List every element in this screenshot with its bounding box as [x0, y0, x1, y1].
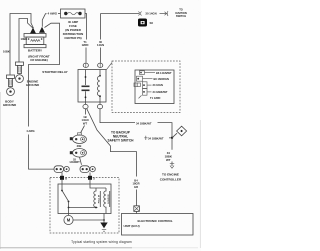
inline connector C2	[70, 133, 87, 144]
wire battery positive cable to starter	[29, 23, 60, 126]
starter relay K1	[78, 70, 106, 103]
wire motor to ground	[73, 219, 104, 221]
connector detail inner box	[135, 70, 174, 104]
wire ring to terminal B	[61, 172, 63, 176]
switch blade	[61, 180, 63, 191]
wire ring to terminal S	[89, 173, 91, 177]
wire switch node to motor	[68, 208, 70, 216]
terminal S	[88, 176, 92, 180]
terminal B	[60, 176, 64, 180]
page edge shading	[0, 92, 2, 249]
terminal relay pin 3	[85, 102, 87, 105]
wire 30 14GN to relay coil	[100, 14, 102, 40]
terminal relay pin 4	[99, 102, 101, 105]
wire terminal S to coils	[90, 180, 106, 188]
wire 34 18BK/WT to safety switch	[147, 137, 171, 139]
connector half C4	[144, 136, 147, 140]
wire T1 12RD fuse to relay	[85, 14, 87, 40]
hold-in coil	[104, 188, 110, 214]
battery positive clamp	[39, 27, 45, 33]
connector detail dashed box	[112, 61, 180, 113]
leader line	[106, 63, 112, 70]
ground starter	[103, 214, 105, 223]
pin row B6 16OR/GN	[137, 76, 143, 81]
ring terminal pair battery cable	[54, 166, 69, 173]
scan noise overlay	[0, 0, 1, 1]
connector half C1	[139, 11, 142, 15]
splice S134 diamond	[172, 133, 177, 138]
starter solenoid box	[58, 184, 111, 214]
wire battery negative to body ground	[10, 14, 34, 75]
pull-in coil	[94, 188, 101, 208]
pin row 34 18BK/WT	[143, 89, 148, 96]
fuse F1 40 AMP	[61, 9, 86, 40]
inline connector C3	[70, 149, 87, 158]
body ground terminal	[3, 75, 17, 107]
arrow to ignition switch	[160, 12, 167, 15]
ring terminal pair solenoid feed	[80, 166, 95, 173]
pin row 33 16GN	[134, 83, 137, 87]
wire connector to starter S ring	[80, 157, 82, 165]
terminal ECU pin	[134, 206, 140, 212]
wire 30 14GN ignition switch feed	[101, 13, 140, 15]
wire battery negative to engine ground	[19, 19, 33, 63]
motor M	[64, 215, 73, 224]
ECU box	[122, 214, 194, 236]
wire B4 18GR relay to ECU	[87, 109, 137, 177]
engine ground terminal	[16, 62, 40, 87]
wire battery positive to fuse, 4 AWG	[42, 14, 46, 27]
battery negative clamp	[30, 28, 36, 34]
wire 1B 14GN/WT relay to connector	[85, 109, 87, 115]
terminal relay pin 1	[83, 63, 88, 67]
wire 34 18BK/WT to engine controller	[171, 138, 173, 150]
splice icon S6	[138, 19, 147, 27]
pin row T1 12RD	[139, 95, 142, 98]
terminal relay pin 2	[98, 63, 103, 67]
starter motor dashed outline	[50, 178, 119, 234]
wire 34 18BK/WT from relay	[100, 109, 135, 123]
junction node	[171, 137, 173, 139]
pin row B6 14GN/WT	[140, 71, 145, 75]
wire switch to pull-in rail	[69, 202, 98, 208]
battery B1	[24, 34, 50, 63]
